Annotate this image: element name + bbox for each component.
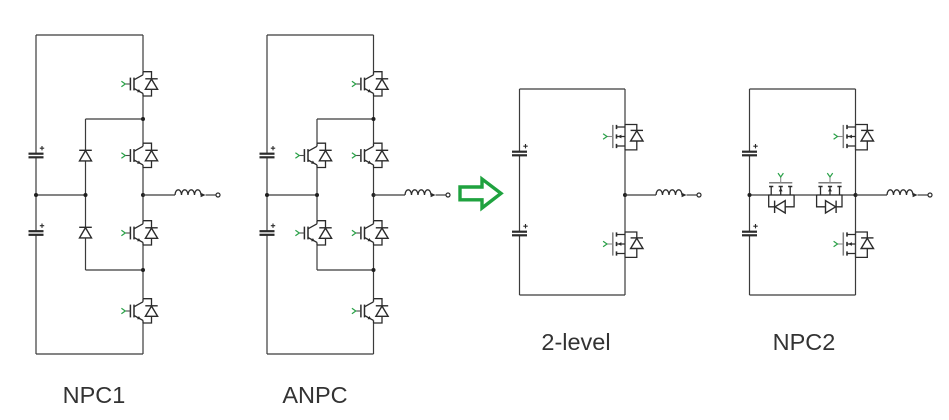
green block arrow (topology transition): [460, 179, 501, 208]
diode D1 (NPC1 upper clamp): [79, 150, 92, 161]
capacitor C6 (2-level lower dc-link): [512, 224, 528, 235]
node - ANPC lower junction: [372, 268, 376, 272]
node - NPC1 clamp midpoint: [84, 193, 88, 197]
wire - NPC1 switch leg segments: [142, 35, 144, 354]
transistor Q1 (2-level MOSFET top): [603, 124, 643, 150]
transistor S5 (ANPC inner upper IGBT): [295, 143, 331, 167]
wire - NPC2 switch leg: [855, 89, 857, 295]
transistor S4 (ANPC IGBT bottom): [352, 299, 388, 323]
node - NPC2 output junction: [854, 193, 858, 197]
wire - NPC1 left rail (with capacitor gaps): [35, 35, 37, 354]
node - 2-level output junction: [623, 193, 627, 197]
inductor L1 (NPC1 output filter) with terminal: [175, 190, 220, 197]
capacitor C3 (ANPC upper dc-link): [260, 146, 276, 157]
wire - NPC2 top rail: [750, 88, 856, 90]
transistor S2 (NPC1 IGBT upper-mid): [121, 143, 157, 167]
2-level topology group: [512, 89, 701, 355]
wire - NPC1 output lead: [143, 194, 175, 196]
wire - NPC2 left rail (with capacitor gaps): [749, 89, 751, 295]
wire - ANPC bottom rail: [267, 353, 374, 355]
wire - 2-level switch leg: [624, 89, 626, 295]
wire - NPC2 output lead: [856, 194, 888, 196]
svg-text:2-level: 2-level: [541, 329, 610, 355]
capacitor C1 (NPC1 upper dc-link): [29, 146, 45, 157]
wire - NPC1 top rail: [36, 34, 143, 36]
wire - ANPC lower link: [317, 269, 374, 271]
svg-text:NPC2: NPC2: [773, 329, 836, 355]
node - ANPC inner leg midpoint: [315, 193, 319, 197]
transistor S1 (NPC1 IGBT top): [121, 72, 157, 96]
node - NPC1 output junction: [141, 193, 145, 197]
transistor Q5 (NPC2 bidirectional switch left MOSFET, diode pointing left): [768, 173, 794, 213]
svg-text:NPC1: NPC1: [63, 382, 126, 408]
wire - NPC1 upper clamp link: [86, 118, 144, 120]
wire - NPC2 neutral rail through bidirectional switch: [750, 194, 856, 196]
capacitor C7 (NPC2 upper dc-link): [742, 144, 758, 155]
node - NPC1 upper clamp junction: [141, 117, 145, 121]
NPC2 topology group: [742, 89, 932, 355]
wire - NPC1 clamp diode branch vertical: [85, 119, 87, 270]
transistor S6 (ANPC inner lower IGBT): [295, 221, 331, 245]
wire - 2-level top rail: [520, 88, 626, 90]
wire - NPC1 lower clamp link: [86, 269, 144, 271]
node - ANPC upper junction: [372, 117, 376, 121]
node - NPC2 neutral at capacitors: [748, 193, 752, 197]
node - NPC1 neutral at capacitors: [34, 193, 38, 197]
transistor Q6 (NPC2 bidirectional switch right MOSFET, diode pointing right): [817, 173, 843, 213]
transistor Q4 (NPC2 MOSFET bottom): [834, 232, 874, 258]
wire - ANPC switch leg segments: [373, 35, 375, 354]
wire - NPC1 bottom rail: [36, 353, 143, 355]
wire - ANPC output lead: [374, 194, 406, 196]
transistor S3 (NPC1 IGBT lower-mid): [121, 221, 157, 245]
inductor L3 (2-level output filter) with terminal: [656, 190, 701, 197]
node - ANPC output junction: [372, 193, 376, 197]
capacitor C2 (NPC1 lower dc-link): [29, 224, 45, 235]
wire - 2-level output lead: [625, 194, 656, 196]
wire - ANPC neutral link: [267, 194, 317, 196]
wire - NPC1 neutral link (cap midpoint to clamp diodes): [36, 194, 86, 196]
capacitor C8 (NPC2 lower dc-link): [742, 224, 758, 235]
ANPC topology group: [260, 35, 451, 408]
inductor L2 (ANPC output filter) with terminal: [405, 190, 450, 197]
wire - ANPC upper link: [317, 118, 374, 120]
wire - NPC2 bottom rail: [750, 294, 856, 296]
svg-text:ANPC: ANPC: [282, 382, 347, 408]
node - NPC1 lower clamp junction: [141, 268, 145, 272]
transistor S1 (ANPC IGBT top): [352, 72, 388, 96]
wire - 2-level left rail (with capacitor gaps): [519, 89, 521, 295]
wire - ANPC left rail (with capacitor gaps): [266, 35, 268, 354]
transistor Q2 (2-level MOSFET bottom): [603, 232, 643, 258]
NPC1 topology group: [29, 35, 221, 408]
node - ANPC neutral at capacitors: [265, 193, 269, 197]
wire - 2-level bottom rail: [520, 294, 626, 296]
capacitor C5 (2-level upper dc-link): [512, 144, 528, 155]
capacitor C4 (ANPC lower dc-link): [260, 224, 276, 235]
diode D2 (NPC1 lower clamp): [79, 227, 92, 238]
transistor S3 (ANPC IGBT lower-mid): [352, 221, 388, 245]
wire - ANPC inner leg segments: [316, 119, 318, 270]
wire - ANPC top rail: [267, 34, 374, 36]
inductor L4 (NPC2 output filter) with terminal: [887, 190, 932, 197]
transistor S4 (NPC1 IGBT bottom): [121, 299, 157, 323]
transistor Q3 (NPC2 MOSFET top): [834, 124, 874, 150]
transistor S2 (ANPC IGBT upper-mid): [352, 143, 388, 167]
